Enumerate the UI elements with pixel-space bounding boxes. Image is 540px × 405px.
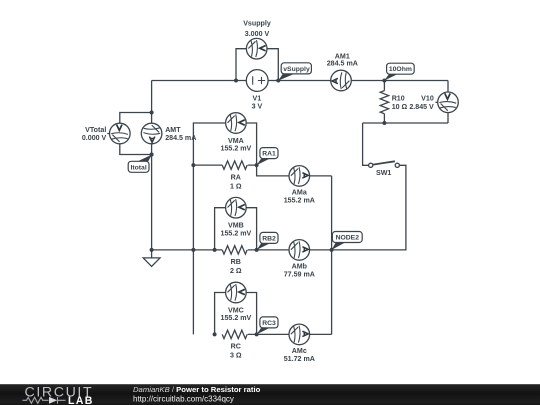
junction node RC3 bbox=[255, 332, 259, 336]
wire main top rail bbox=[152, 80, 448, 82]
svg-text:vSupply: vSupply bbox=[283, 66, 310, 73]
ammeter AMb bbox=[289, 240, 310, 261]
junction node Itotal bbox=[150, 153, 154, 157]
svg-text:LAB: LAB bbox=[68, 395, 94, 405]
voltmeter VMA bbox=[226, 113, 247, 134]
voltmeter Vsupply bbox=[246, 38, 267, 59]
junction node RA1 bbox=[255, 163, 259, 167]
svg-text:RA1: RA1 bbox=[262, 151, 276, 158]
voltmeter VTotal bbox=[110, 123, 131, 144]
wire left drop from top rail bbox=[151, 81, 153, 113]
wire trunk Itotal to ground row bbox=[151, 155, 153, 250]
svg-text:V10: V10 bbox=[421, 95, 434, 103]
svg-text:51.72 mA: 51.72 mA bbox=[284, 355, 315, 363]
flag vSupply bbox=[278, 63, 311, 81]
terminal nub VTotal bbox=[107, 133, 109, 135]
svg-text:DamianKB / Power to Resistor r: DamianKB / Power to Resistor ratio bbox=[133, 385, 261, 394]
svg-text:77.59 mA: 77.59 mA bbox=[284, 271, 315, 279]
wire RC row right bbox=[248, 333, 332, 335]
wire V10 right drop bbox=[447, 81, 449, 124]
junction node VMC left bbox=[213, 332, 217, 336]
wire trunk RA to RC bbox=[192, 165, 194, 334]
svg-text:10Ohm: 10Ohm bbox=[389, 66, 412, 73]
wire VMA loop bbox=[193, 123, 256, 165]
svg-text:V1: V1 bbox=[253, 95, 262, 103]
svg-text:2 Ω: 2 Ω bbox=[230, 267, 242, 275]
svg-text:155.2 mA: 155.2 mA bbox=[284, 197, 315, 205]
footer bar bbox=[0, 384, 540, 405]
svg-text:RB2: RB2 bbox=[262, 235, 276, 242]
svg-text:RC: RC bbox=[231, 343, 241, 351]
resistor R10 10ohm vertical bbox=[380, 91, 388, 114]
svg-text:Vsupply: Vsupply bbox=[243, 20, 271, 28]
ammeter AMT bbox=[141, 123, 162, 144]
junction node R10 bottom bbox=[382, 121, 386, 125]
resistor RA 1ohm bbox=[222, 161, 247, 169]
wire R10 bottom row bbox=[363, 122, 448, 124]
ground bbox=[143, 250, 160, 267]
svg-text:SW1: SW1 bbox=[376, 169, 391, 177]
wire RB row to NODE2 to SW1 bbox=[248, 165, 406, 250]
wire VMC loop bbox=[215, 293, 257, 335]
junction node V1 left bbox=[234, 79, 238, 83]
junction node VMB left bbox=[213, 248, 217, 252]
svg-text:1 Ω: 1 Ω bbox=[230, 182, 242, 190]
svg-text:155.2 mV: 155.2 mV bbox=[221, 229, 252, 237]
wire RA row left bbox=[193, 164, 222, 166]
wire VMB loop bbox=[215, 208, 257, 250]
flag RA1 bbox=[257, 148, 278, 166]
junction node NODE2 bbox=[330, 248, 334, 252]
logo circuit doodle bbox=[23, 397, 66, 404]
terminal nub V10 bbox=[435, 101, 437, 103]
flag Itotal bbox=[128, 155, 152, 173]
wire SW1 left drop bbox=[363, 123, 369, 165]
ammeter AM1 bbox=[331, 70, 352, 91]
svg-text:10 Ω: 10 Ω bbox=[392, 103, 408, 111]
wire Vsupply loop bbox=[236, 49, 278, 81]
svg-text:RB: RB bbox=[231, 258, 241, 266]
svg-text:VTotal: VTotal bbox=[85, 126, 106, 134]
svg-text:AMb: AMb bbox=[292, 262, 308, 270]
wire right bus AMa to AMc bbox=[331, 176, 333, 335]
flag RC3 bbox=[257, 317, 278, 335]
svg-text:AMc: AMc bbox=[292, 347, 307, 355]
wire R10 stubs bbox=[383, 81, 385, 124]
svg-text:AMT: AMT bbox=[165, 126, 181, 134]
svg-text:3.000 V: 3.000 V bbox=[245, 30, 270, 38]
junction node ground row bbox=[150, 248, 154, 252]
junction node trunk-ground cross bbox=[191, 248, 195, 252]
svg-text:AMa: AMa bbox=[292, 188, 307, 196]
svg-text:155.2 mV: 155.2 mV bbox=[221, 145, 252, 153]
svg-text:NODE2: NODE2 bbox=[336, 235, 360, 242]
resistor RC 3ohm bbox=[222, 330, 247, 338]
wire VTotal/AMT top bar bbox=[120, 113, 152, 124]
svg-text:284.5 mA: 284.5 mA bbox=[165, 134, 196, 142]
svg-text:RC3: RC3 bbox=[262, 320, 276, 327]
flag RB2 bbox=[257, 232, 278, 250]
svg-text:3 V: 3 V bbox=[252, 103, 263, 111]
flag NODE2 bbox=[332, 232, 363, 250]
junction node vSupply bbox=[276, 79, 280, 83]
svg-text:R10: R10 bbox=[392, 95, 405, 103]
junction node 10Ohm top bbox=[382, 79, 386, 83]
junction node pair top bbox=[150, 111, 154, 115]
voltmeter VMC bbox=[226, 282, 247, 303]
svg-text:3 Ω: 3 Ω bbox=[230, 352, 242, 360]
resistor RB 2ohm bbox=[222, 246, 247, 254]
voltmeter V10 bbox=[438, 92, 459, 113]
svg-text:RA: RA bbox=[231, 173, 241, 181]
ammeter AMa bbox=[289, 166, 310, 187]
wire ground row bbox=[152, 249, 223, 251]
svg-text:Itotal: Itotal bbox=[130, 164, 146, 171]
voltmeter VMB bbox=[226, 197, 247, 218]
svg-text:2.845 V: 2.845 V bbox=[409, 103, 434, 111]
svg-text:284.5 mA: 284.5 mA bbox=[327, 60, 358, 68]
svg-text:155.2 mV: 155.2 mV bbox=[221, 314, 252, 322]
voltage source V1 bbox=[246, 70, 268, 92]
svg-text:http://circuitlab.com/c334qcy: http://circuitlab.com/c334qcy bbox=[133, 394, 234, 403]
ammeter AMc bbox=[289, 324, 310, 345]
flag 10Ohm bbox=[384, 63, 414, 80]
junction node RA left bbox=[191, 163, 195, 167]
svg-text:0.000 V: 0.000 V bbox=[82, 134, 107, 142]
switch SW1 bbox=[369, 161, 400, 167]
wire VTotal/AMT bottom bar bbox=[120, 144, 152, 155]
wire RA row right jog to AMa bbox=[248, 165, 332, 176]
junction node RB2 bbox=[255, 248, 259, 252]
